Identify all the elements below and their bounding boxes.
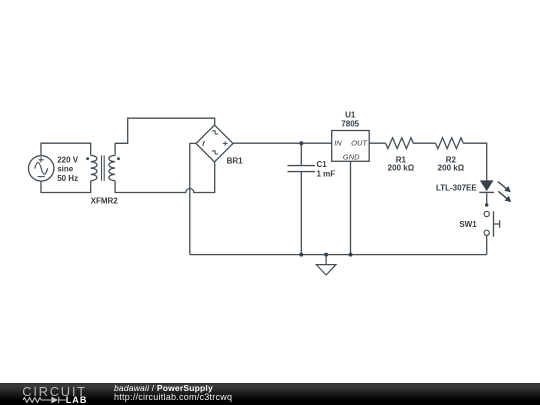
svg-text:XFMR2: XFMR2 xyxy=(91,197,119,206)
svg-text:C1: C1 xyxy=(317,160,328,169)
svg-text:BR1: BR1 xyxy=(227,156,244,165)
svg-text:OUT: OUT xyxy=(351,139,368,148)
svg-text:200 kΩ: 200 kΩ xyxy=(438,163,465,172)
svg-text:50 Hz: 50 Hz xyxy=(57,174,78,183)
svg-text:GND: GND xyxy=(343,153,360,162)
svg-text:IN: IN xyxy=(334,139,342,148)
svg-text:SW1: SW1 xyxy=(459,220,477,229)
svg-text:200 kΩ: 200 kΩ xyxy=(388,163,415,172)
svg-text:U1: U1 xyxy=(345,110,356,119)
svg-text:220 V: 220 V xyxy=(57,155,79,164)
svg-text:LTL-307EE: LTL-307EE xyxy=(436,184,477,193)
svg-text:sine: sine xyxy=(57,165,74,174)
svg-text:7805: 7805 xyxy=(341,119,359,128)
svg-text:LAB: LAB xyxy=(66,395,88,405)
svg-text:1 mF: 1 mF xyxy=(317,169,336,178)
